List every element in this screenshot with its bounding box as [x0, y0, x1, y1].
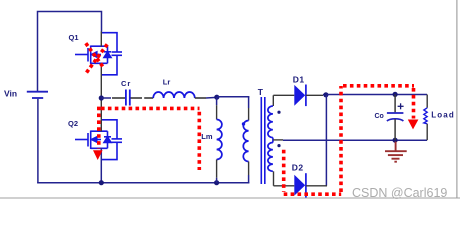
node rectifier output junction: [323, 92, 328, 97]
wire Cr to Lr: [131, 97, 143, 99]
wire Q2 source to bottom rail: [100, 148, 102, 183]
node Co bottom / ground: [393, 138, 398, 143]
wire battery negative lead: [37, 99, 39, 183]
inductor Lm: [216, 97, 218, 105]
Co plus sign: [398, 103, 404, 109]
wire red vertical to output: [412, 88, 416, 119]
red dotted path secondary loop: [284, 86, 414, 194]
red X over Q1: [86, 43, 107, 73]
wire node to Cr: [101, 97, 111, 99]
svg-text:Q2: Q2: [68, 119, 78, 128]
wire secondary bottom to D2: [274, 185, 295, 187]
svg-text:Q1: Q1: [69, 33, 79, 42]
wire red horizontal top: [343, 84, 414, 88]
transformer secondary bottom winding: [272, 138, 274, 143]
red arrow at Q2: [93, 150, 103, 160]
svg-text:Load: Load: [431, 111, 455, 120]
wire D2 cathode to junction vertical: [306, 185, 327, 187]
wire red vertical at center tap: [282, 150, 286, 192]
svg-text:T: T: [258, 87, 264, 97]
wire red horizontal bottom: [284, 192, 342, 196]
transistor Q2: [75, 120, 122, 160]
svg-text:D2: D2: [292, 162, 304, 172]
wire bottom divider line: [0, 197, 460, 199]
wire center tap return: [273, 139, 283, 141]
node Lm top: [214, 95, 219, 100]
wire bottom rail: [37, 182, 249, 184]
node Lm bottom: [214, 180, 219, 185]
wire Lm node to primary: [217, 96, 250, 98]
transformer secondary top winding: [272, 95, 274, 106]
svg-text:D1: D1: [293, 74, 305, 84]
svg-text:Cr: Cr: [121, 79, 131, 88]
node secondary bottom polarity dot: [277, 144, 280, 147]
red arrow at output: [408, 120, 419, 130]
wire D1 cathode to node: [306, 94, 323, 96]
wire output top rail: [327, 94, 427, 96]
wire red vertical at Lm: [198, 112, 202, 170]
node secondary top polarity dot: [277, 111, 280, 114]
diode D2: [294, 175, 305, 196]
svg-text:Lr: Lr: [163, 78, 171, 87]
node primary polarity dot: [242, 122, 245, 125]
resistor Load: [426, 95, 428, 108]
wire Lr to Lm node: [195, 97, 206, 99]
wire top rail: [38, 12, 102, 92]
wire red vertical right of D2: [339, 86, 343, 192]
svg-text:Lm: Lm: [201, 132, 213, 141]
diode D1: [294, 85, 305, 106]
ground: [385, 142, 407, 162]
svg-text:Co: Co: [375, 113, 384, 120]
node bottom rail left: [99, 180, 104, 185]
red dotted path primary loop: [99, 107, 200, 170]
svg-text:CSDN @Carl619: CSDN @Carl619: [352, 186, 447, 200]
inductor Lr: [153, 92, 195, 98]
wire secondary top to D1: [273, 94, 294, 96]
svg-text:Vin: Vin: [4, 89, 17, 99]
wire red vertical through Q2: [97, 107, 101, 149]
transformer primary winding: [248, 97, 250, 108]
capacitor Cr: [126, 90, 130, 106]
node half-bridge midpoint: [99, 95, 104, 100]
battery Vin: [27, 92, 48, 98]
wire red horizontal mid: [101, 107, 200, 111]
transformer core: [260, 97, 262, 184]
capacitor Co: [394, 94, 396, 112]
wire rectifier junction vertical D1-D2: [325, 95, 327, 186]
node Co top: [393, 92, 398, 97]
wire Q1 source to node: [100, 63, 102, 98]
wire node to Q2 drain: [100, 98, 102, 132]
wire Q1 drain: [100, 32, 102, 47]
wire right divider line: [456, 0, 458, 198]
transistor Q1: [75, 33, 122, 75]
